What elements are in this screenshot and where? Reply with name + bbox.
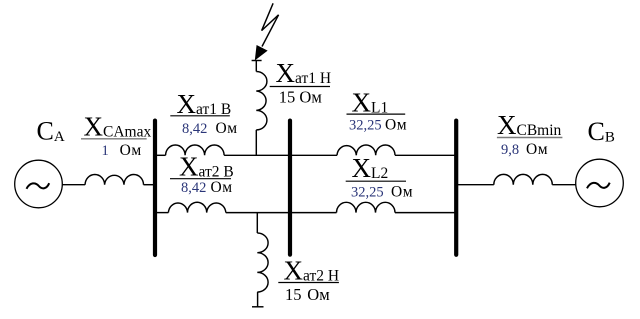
fraction line XL1 <box>347 113 406 115</box>
fraction line XCAmax <box>81 138 147 140</box>
inductor XaT2B <box>168 202 225 212</box>
generator CB circle <box>576 159 624 207</box>
wire bus2 to XL1 coil <box>290 154 337 156</box>
inductor XaT1B <box>166 145 225 155</box>
inductor XaT1H (vertical) <box>256 72 267 130</box>
inductor XCAmax <box>85 174 143 184</box>
inductor XaT2H (vertical) <box>257 233 268 292</box>
svg-text:XL1: XL1 <box>352 87 389 117</box>
svg-text:15 Ом: 15 Ом <box>279 88 323 107</box>
wire XCBmin coil to CB <box>552 184 576 186</box>
wire XaT1B coil to bus2 <box>224 154 290 156</box>
lightning bolt stroke 1 <box>262 3 274 30</box>
lightning bolt stroke 2 <box>262 15 279 31</box>
wire CA to XCAmax coil <box>62 184 85 186</box>
fraction line XL2 <box>346 180 406 182</box>
svg-text:9,8: 9,8 <box>501 142 519 158</box>
svg-text:XCAmax: XCAmax <box>84 112 152 142</box>
generator CA circle <box>15 160 63 208</box>
svg-text:Ом: Ом <box>391 183 413 200</box>
wire XaT2H coil to terminal <box>257 292 259 307</box>
svg-text:32,25: 32,25 <box>349 118 382 134</box>
lightning arrowhead <box>255 46 267 60</box>
wire bus3 to XCBmin coil <box>457 184 494 186</box>
svg-text:1: 1 <box>102 143 109 159</box>
busbar 3 (right) <box>454 121 458 255</box>
wire XaT1H coil to upper branch <box>255 130 257 155</box>
svg-text:Xат1 Н: Xат1 Н <box>276 58 332 88</box>
inductor XL2 <box>337 202 396 212</box>
wire bus2 to XL2 coil <box>290 212 337 214</box>
svg-text:CB: CB <box>588 117 615 146</box>
svg-text:32,25: 32,25 <box>351 184 384 200</box>
inductor XCBmin <box>494 174 553 184</box>
terminal tick <box>252 306 264 308</box>
fault point tick <box>252 60 262 62</box>
svg-text:Xат2 Н: Xат2 Н <box>284 256 340 286</box>
fraction line XaT2H <box>278 282 339 284</box>
wire XaT2B coil to bus2 <box>226 212 290 214</box>
fraction line XaT1H <box>270 86 330 88</box>
busbar 1 (left) <box>153 121 157 255</box>
svg-text:Ом: Ом <box>307 285 330 304</box>
wire XCAmax coil to bus1 <box>144 184 156 186</box>
svg-text:XL2: XL2 <box>352 153 389 183</box>
generator CA tilde <box>27 183 50 189</box>
generator CB tilde <box>587 183 610 189</box>
svg-text:Ом: Ом <box>120 142 142 159</box>
fraction line XaT2B <box>170 178 231 180</box>
svg-text:Ом: Ом <box>216 120 238 137</box>
svg-text:15: 15 <box>285 285 302 304</box>
fraction line XCBmin <box>497 137 563 139</box>
svg-text:Xат1 В: Xат1 В <box>177 89 232 119</box>
svg-text:8,42: 8,42 <box>182 121 207 137</box>
lightning bolt stroke 3 <box>262 15 279 47</box>
wire XL2 coil to bus3 <box>395 212 456 214</box>
svg-text:Ом: Ом <box>526 141 548 158</box>
svg-text:CA: CA <box>37 117 65 146</box>
inductor XL1 <box>337 145 395 155</box>
fraction line XaT1B <box>170 115 230 117</box>
busbar 2 (middle) <box>288 121 292 255</box>
wire lower branch to XaT2H coil <box>256 213 258 233</box>
svg-text:Ом: Ом <box>211 179 233 196</box>
svg-text:XCBmin: XCBmin <box>497 110 562 140</box>
wire tick to XaT1H coil <box>255 61 257 72</box>
svg-text:8,42: 8,42 <box>181 180 206 196</box>
wire bus1 to XaT1B coil <box>156 154 166 156</box>
svg-text:Ом: Ом <box>385 117 407 134</box>
wire XL1 coil to bus3 <box>395 154 456 156</box>
wire bus1 to XaT2B coil <box>156 212 168 214</box>
